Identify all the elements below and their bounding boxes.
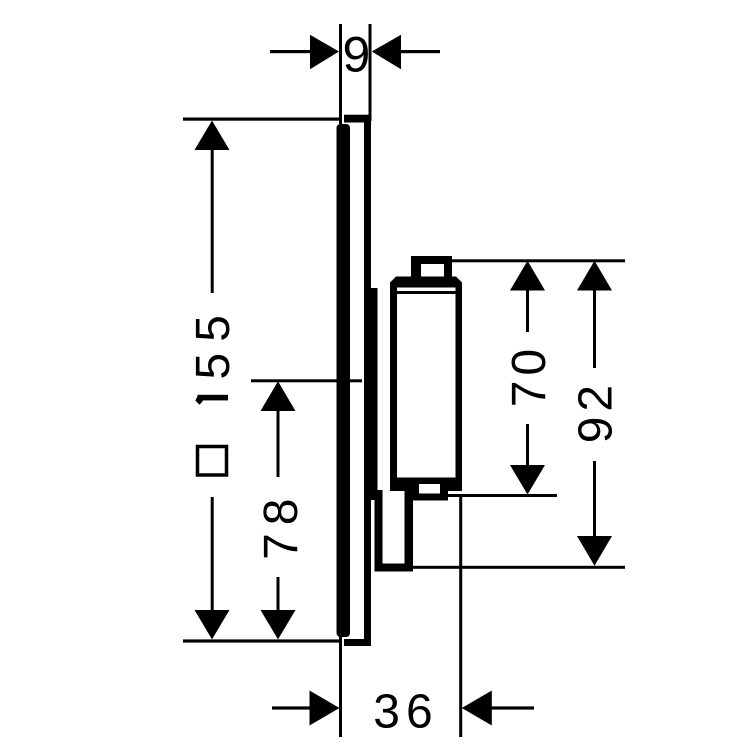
dim 9: left extension line xyxy=(339,24,342,124)
cartridge top stub interior xyxy=(421,264,444,277)
dim 155: bottom reference line xyxy=(183,639,341,642)
dim 9: right arrow xyxy=(372,35,401,70)
svg-text:55: 55 xyxy=(187,304,240,379)
valve sleeve rear line xyxy=(369,288,378,500)
dim 78: up arrow xyxy=(261,381,296,411)
valve body interior xyxy=(397,294,456,478)
svg-text:9: 9 xyxy=(342,27,370,83)
dim 70: down arrow xyxy=(510,465,545,495)
plate top cap xyxy=(344,115,371,123)
dim 9: left arrow xyxy=(310,35,339,70)
dim 36: right arrow xyxy=(462,691,492,726)
dim 36: left arrow xyxy=(310,691,340,726)
dim 92: bottom reference line xyxy=(413,566,625,569)
dim 155: lower line segment xyxy=(211,497,214,610)
dim 155: top reference line xyxy=(183,118,339,121)
valve body flange seam xyxy=(397,288,456,292)
svg-text:70: 70 xyxy=(503,344,556,407)
supply connection narrow part bottom bar xyxy=(375,564,414,572)
dim 92: down arrow xyxy=(577,536,612,566)
dim 70: upper line segment xyxy=(526,290,529,332)
square symbol xyxy=(198,447,227,476)
dim 70: up arrow xyxy=(510,261,545,291)
bottom stub xyxy=(411,488,448,501)
dim 9: right tail xyxy=(400,50,440,53)
dim 36: right tail xyxy=(491,706,534,709)
dim 78: upper line segment xyxy=(277,411,280,477)
bottom stub interior xyxy=(419,484,440,494)
dim 9: left tail xyxy=(270,50,311,53)
supply connection narrow part right wall xyxy=(405,487,414,571)
dim 36: right extension line xyxy=(459,497,462,737)
valve body outer xyxy=(390,277,462,492)
dim 155: up arrow xyxy=(195,121,230,151)
dim 92: upper line segment xyxy=(593,290,596,368)
dim 70: bottom reference line xyxy=(448,494,557,497)
centerline xyxy=(251,379,362,382)
svg-text:92: 92 xyxy=(570,380,623,443)
dim 70/92: top reference line xyxy=(452,259,625,262)
valve body top-left chamfer xyxy=(390,277,396,283)
plate back face (thick band) xyxy=(337,124,351,637)
dim 36: left tail xyxy=(272,706,310,709)
dim 155: down arrow xyxy=(195,610,230,639)
plate front face line xyxy=(364,121,371,641)
dim 92: up arrow xyxy=(577,261,612,291)
dim 70: lower line segment xyxy=(526,424,529,465)
svg-text:36: 36 xyxy=(373,686,438,739)
cartridge top stub xyxy=(411,256,452,279)
dim 92: lower line segment xyxy=(593,461,596,536)
dim 9: right extension line xyxy=(369,24,372,121)
dim 78: down arrow xyxy=(261,610,296,639)
supply connection narrow part left wall xyxy=(375,490,383,571)
dim 36: left extension line xyxy=(339,634,342,737)
dim 155: label "1" digit (drawn) xyxy=(198,395,229,401)
dim 78: lower line segment xyxy=(277,577,280,610)
valve body top-right chamfer xyxy=(456,277,462,283)
plate bottom cap xyxy=(344,639,371,646)
dim 155: upper line segment xyxy=(211,150,214,293)
svg-text:78: 78 xyxy=(255,491,308,560)
